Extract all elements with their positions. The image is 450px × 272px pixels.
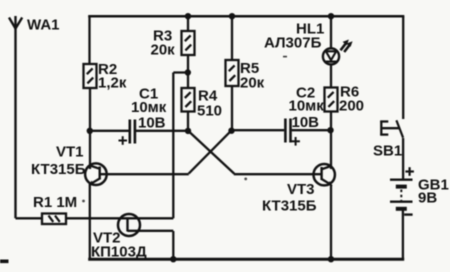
- wire VT1 emitter down to bottom rail: [89, 184, 91, 259]
- resistor R1: [16, 214, 67, 225]
- node R3 bottom: [187, 55, 189, 88]
- node R5 top: [229, 13, 235, 19]
- node VT2 source / bottom rail: [170, 256, 176, 262]
- wire cross-coupling diagonal right-down: [189, 131, 232, 174]
- resistor R5: [226, 16, 239, 131]
- wire VT2 drain up to VT1 base / R3 node: [172, 73, 174, 219]
- resistor R3: [182, 16, 195, 55]
- svg-text:КТ315Б: КТ315Б: [31, 161, 86, 178]
- svg-text:АЛ307Б: АЛ307Б: [264, 35, 322, 52]
- capacitor C1: [90, 120, 189, 144]
- wire R2 bottom to VT1 collector: [89, 88, 91, 169]
- wire VT2 source down to bottom rail: [172, 231, 174, 259]
- resistor R6: [325, 88, 338, 131]
- svg-text:VT1: VT1: [56, 144, 84, 161]
- svg-text:SB1: SB1: [373, 143, 402, 160]
- scan speck below HL1 label: [283, 56, 287, 58]
- label battery minus: [404, 213, 412, 215]
- node C2 right / R6 bottom: [327, 127, 333, 133]
- svg-text:10В: 10В: [292, 114, 320, 131]
- scan mark bottom left: [0, 260, 9, 264]
- svg-text:VT3: VT3: [287, 181, 315, 198]
- LED HL1 emission arrows: [341, 40, 353, 53]
- svg-text:КТ315Б: КТ315Б: [262, 198, 317, 215]
- svg-text:9В: 9В: [418, 190, 437, 207]
- scan speck center: [244, 178, 247, 181]
- svg-text:R1 1М: R1 1М: [33, 194, 77, 211]
- resistor R2: [84, 64, 97, 88]
- wire R1 to VT2 gate: [66, 217, 173, 219]
- switch SB1: [380, 120, 403, 179]
- wire bottom rail: [88, 258, 404, 261]
- scan speck near R1 label: [82, 200, 85, 203]
- node VT3 emitter / bottom rail: [328, 256, 334, 262]
- svg-text:20к: 20к: [151, 42, 176, 59]
- svg-text:10В: 10В: [138, 115, 166, 132]
- svg-text:10мк: 10мк: [289, 98, 325, 115]
- node C1 right / R4 bottom: [185, 128, 191, 134]
- svg-text:10мк: 10мк: [131, 99, 167, 116]
- wire left column top (rail corner to R2): [88, 16, 90, 64]
- capacitor C2: [232, 119, 331, 143]
- label battery plus: [405, 167, 414, 176]
- svg-text:1,2к: 1,2к: [98, 75, 127, 92]
- wire cross-coupling diagonal left-down: [188, 130, 235, 173]
- svg-text:20к: 20к: [240, 75, 265, 92]
- transistor VT3: [314, 164, 335, 186]
- wire VT3 emitter down to bottom rail: [330, 185, 332, 260]
- node R5 bottom / C2 left: [228, 128, 234, 134]
- wire top rail: [88, 15, 404, 18]
- resistor R4: [182, 88, 195, 131]
- node HL1 top: [328, 13, 334, 19]
- wire VT1 base to junction: [100, 173, 189, 175]
- LED HL1: [323, 16, 339, 87]
- node C1 left junction: [87, 128, 93, 134]
- svg-text:WA1: WA1: [27, 17, 60, 34]
- antenna WA1: [9, 16, 22, 218]
- wire R6 node to VT3 collector: [330, 130, 332, 169]
- wire right rail to switch: [402, 16, 404, 119]
- node R3 top: [185, 13, 191, 19]
- transistor VT1: [85, 163, 107, 185]
- label C1 plus: [119, 136, 128, 145]
- label C2 plus: [291, 137, 300, 146]
- svg-text:510: 510: [197, 103, 222, 120]
- svg-text:200: 200: [339, 98, 364, 115]
- battery GB1: [390, 180, 413, 260]
- transistor VT2: [118, 214, 173, 236]
- wire to VT3 base: [234, 173, 322, 175]
